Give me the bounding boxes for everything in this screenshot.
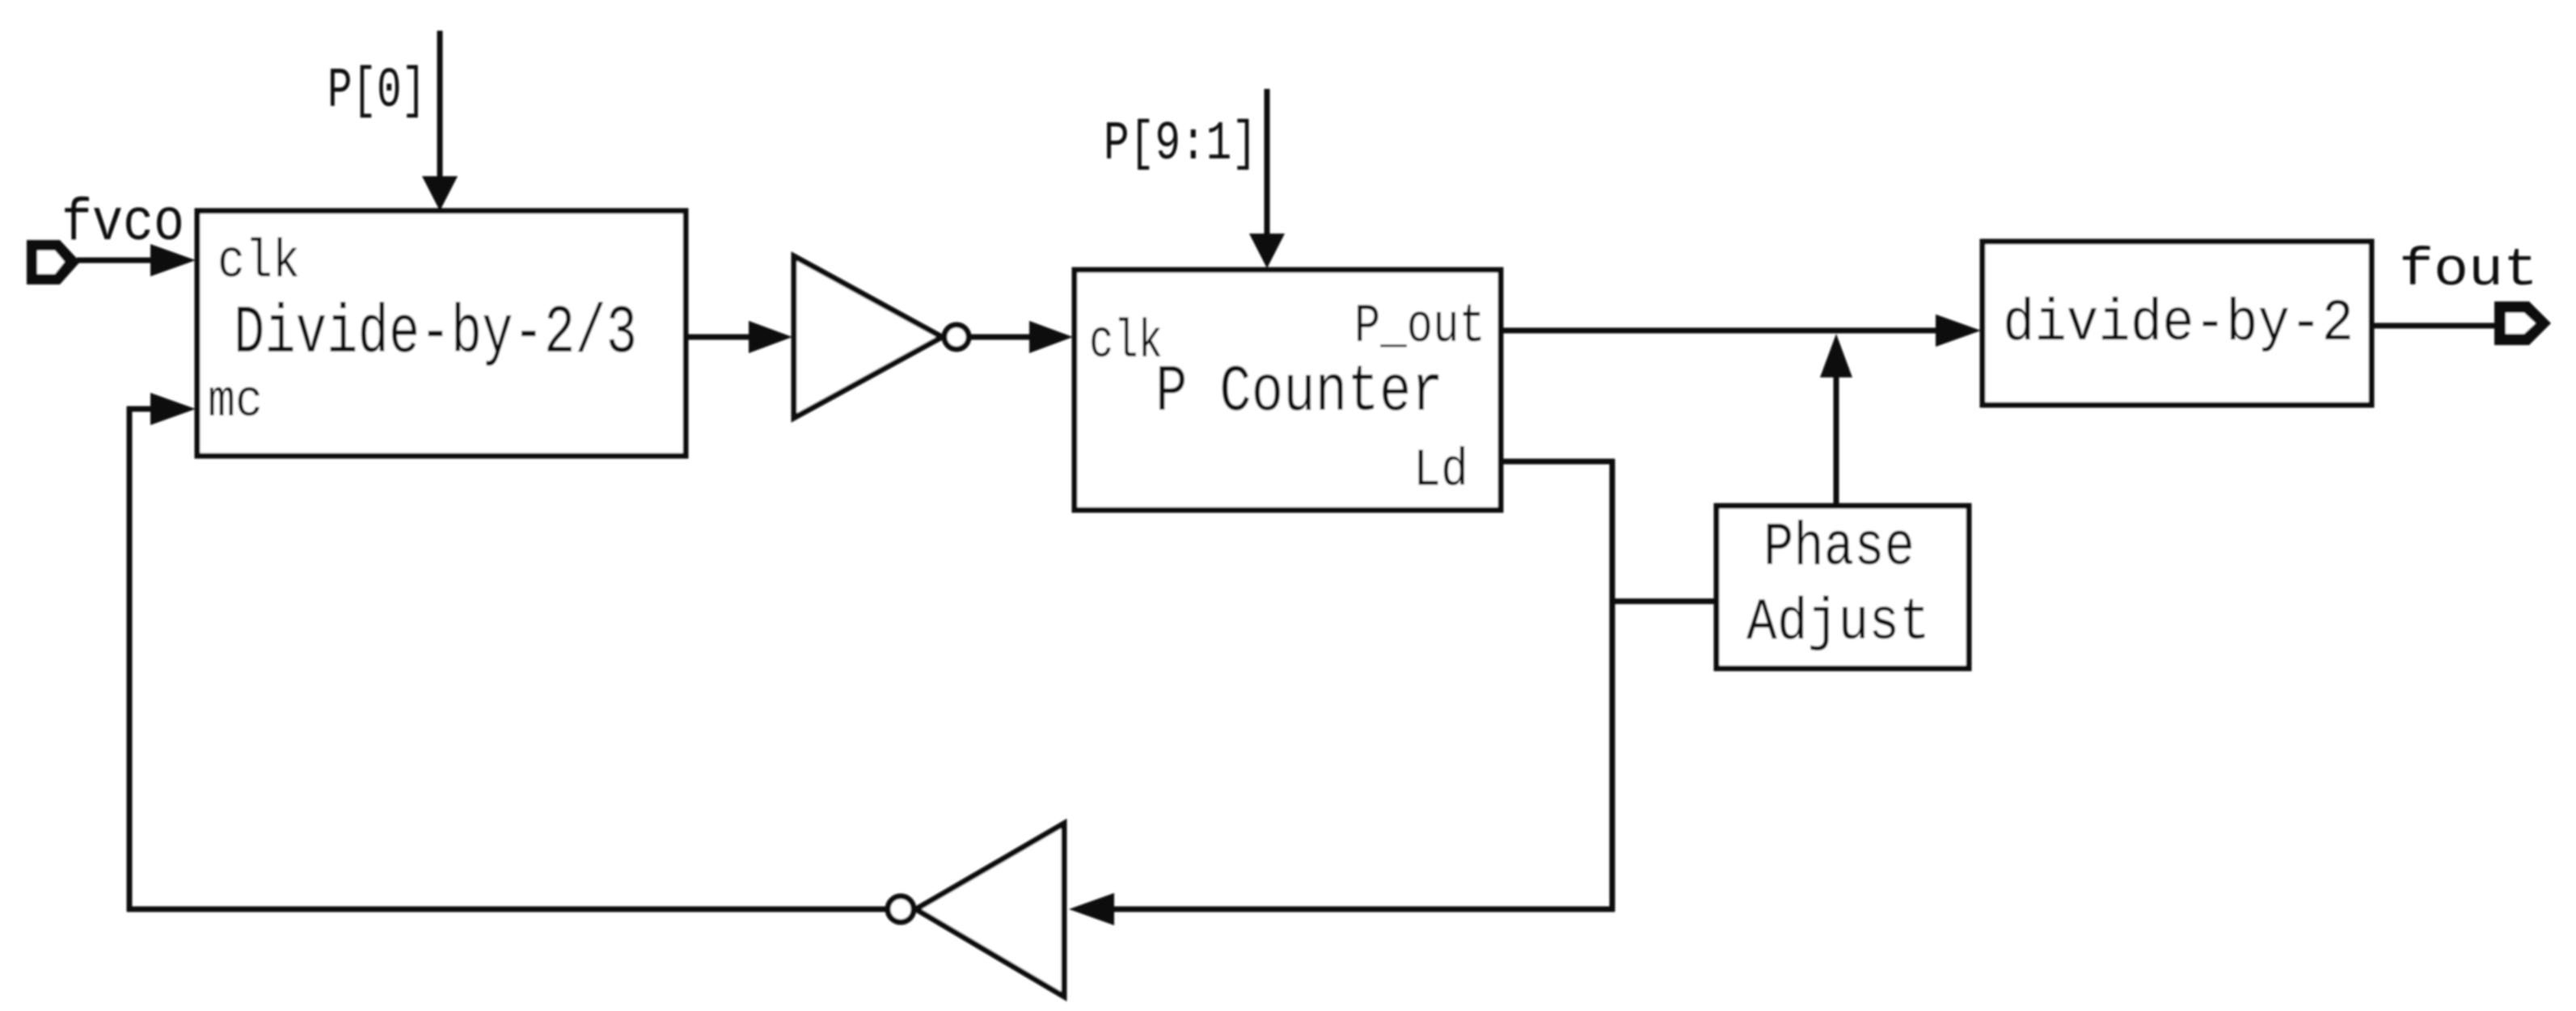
- inverter U2 bubble: [888, 896, 914, 922]
- svg-text:divide-by-2: divide-by-2: [2003, 290, 2354, 357]
- svg-text:clk: clk: [1089, 312, 1163, 373]
- wire fout: [2371, 323, 2498, 329]
- svg-text:Ld: Ld: [1413, 440, 1468, 501]
- input port fvco: [27, 240, 80, 284]
- svg-text:P Counter: P Counter: [1155, 355, 1443, 430]
- svg-text:mc: mc: [208, 372, 263, 432]
- block Divide-by-2/3: [197, 211, 686, 456]
- inverter U1 triangle: [794, 256, 942, 418]
- wire fvco to clk: [77, 258, 155, 263]
- wire stub to Phase Adjust: [1612, 599, 1717, 604]
- wire Divide-by-2/3 output to inverter U1: [686, 335, 752, 340]
- svg-text:Divide-by-2/3: Divide-by-2/3: [234, 296, 637, 373]
- block divide-by-2: [1983, 242, 2371, 405]
- svg-text:P_out: P_out: [1354, 296, 1485, 358]
- wire into mc pin: [127, 407, 155, 412]
- svg-text:fvco: fvco: [61, 190, 184, 257]
- wire Phase Adjust up-arrow to P_out net: [1834, 374, 1839, 506]
- svg-text:clk: clk: [217, 232, 300, 293]
- block P Counter: [1075, 270, 1501, 510]
- inverter U1 bubble: [944, 325, 969, 349]
- wire P_out to divide-by-2: [1501, 328, 1937, 334]
- inverter U2 triangle: [916, 824, 1064, 996]
- svg-text:P[9:1]: P[9:1]: [1104, 113, 1257, 175]
- wire inverter U1 to P Counter clk: [969, 335, 1031, 340]
- wire P[9:1] into P Counter: [1265, 89, 1270, 238]
- svg-text:fout: fout: [2399, 240, 2538, 301]
- wire feedback vertical: [1610, 459, 1615, 912]
- output port fout: [2494, 301, 2551, 345]
- wire P[0] into Divide-by-2/3: [437, 31, 443, 181]
- wire feedback bottom run: [1113, 907, 1615, 912]
- wire inverter U2 output to left riser: [127, 907, 887, 912]
- wire left riser up to mc: [127, 407, 133, 912]
- svg-text:Adjust: Adjust: [1746, 589, 1930, 656]
- block Phase Adjust: [1717, 506, 1969, 668]
- svg-text:P[0]: P[0]: [327, 60, 426, 124]
- svg-text:Phase: Phase: [1763, 513, 1915, 583]
- wire Ld output: [1501, 459, 1615, 465]
